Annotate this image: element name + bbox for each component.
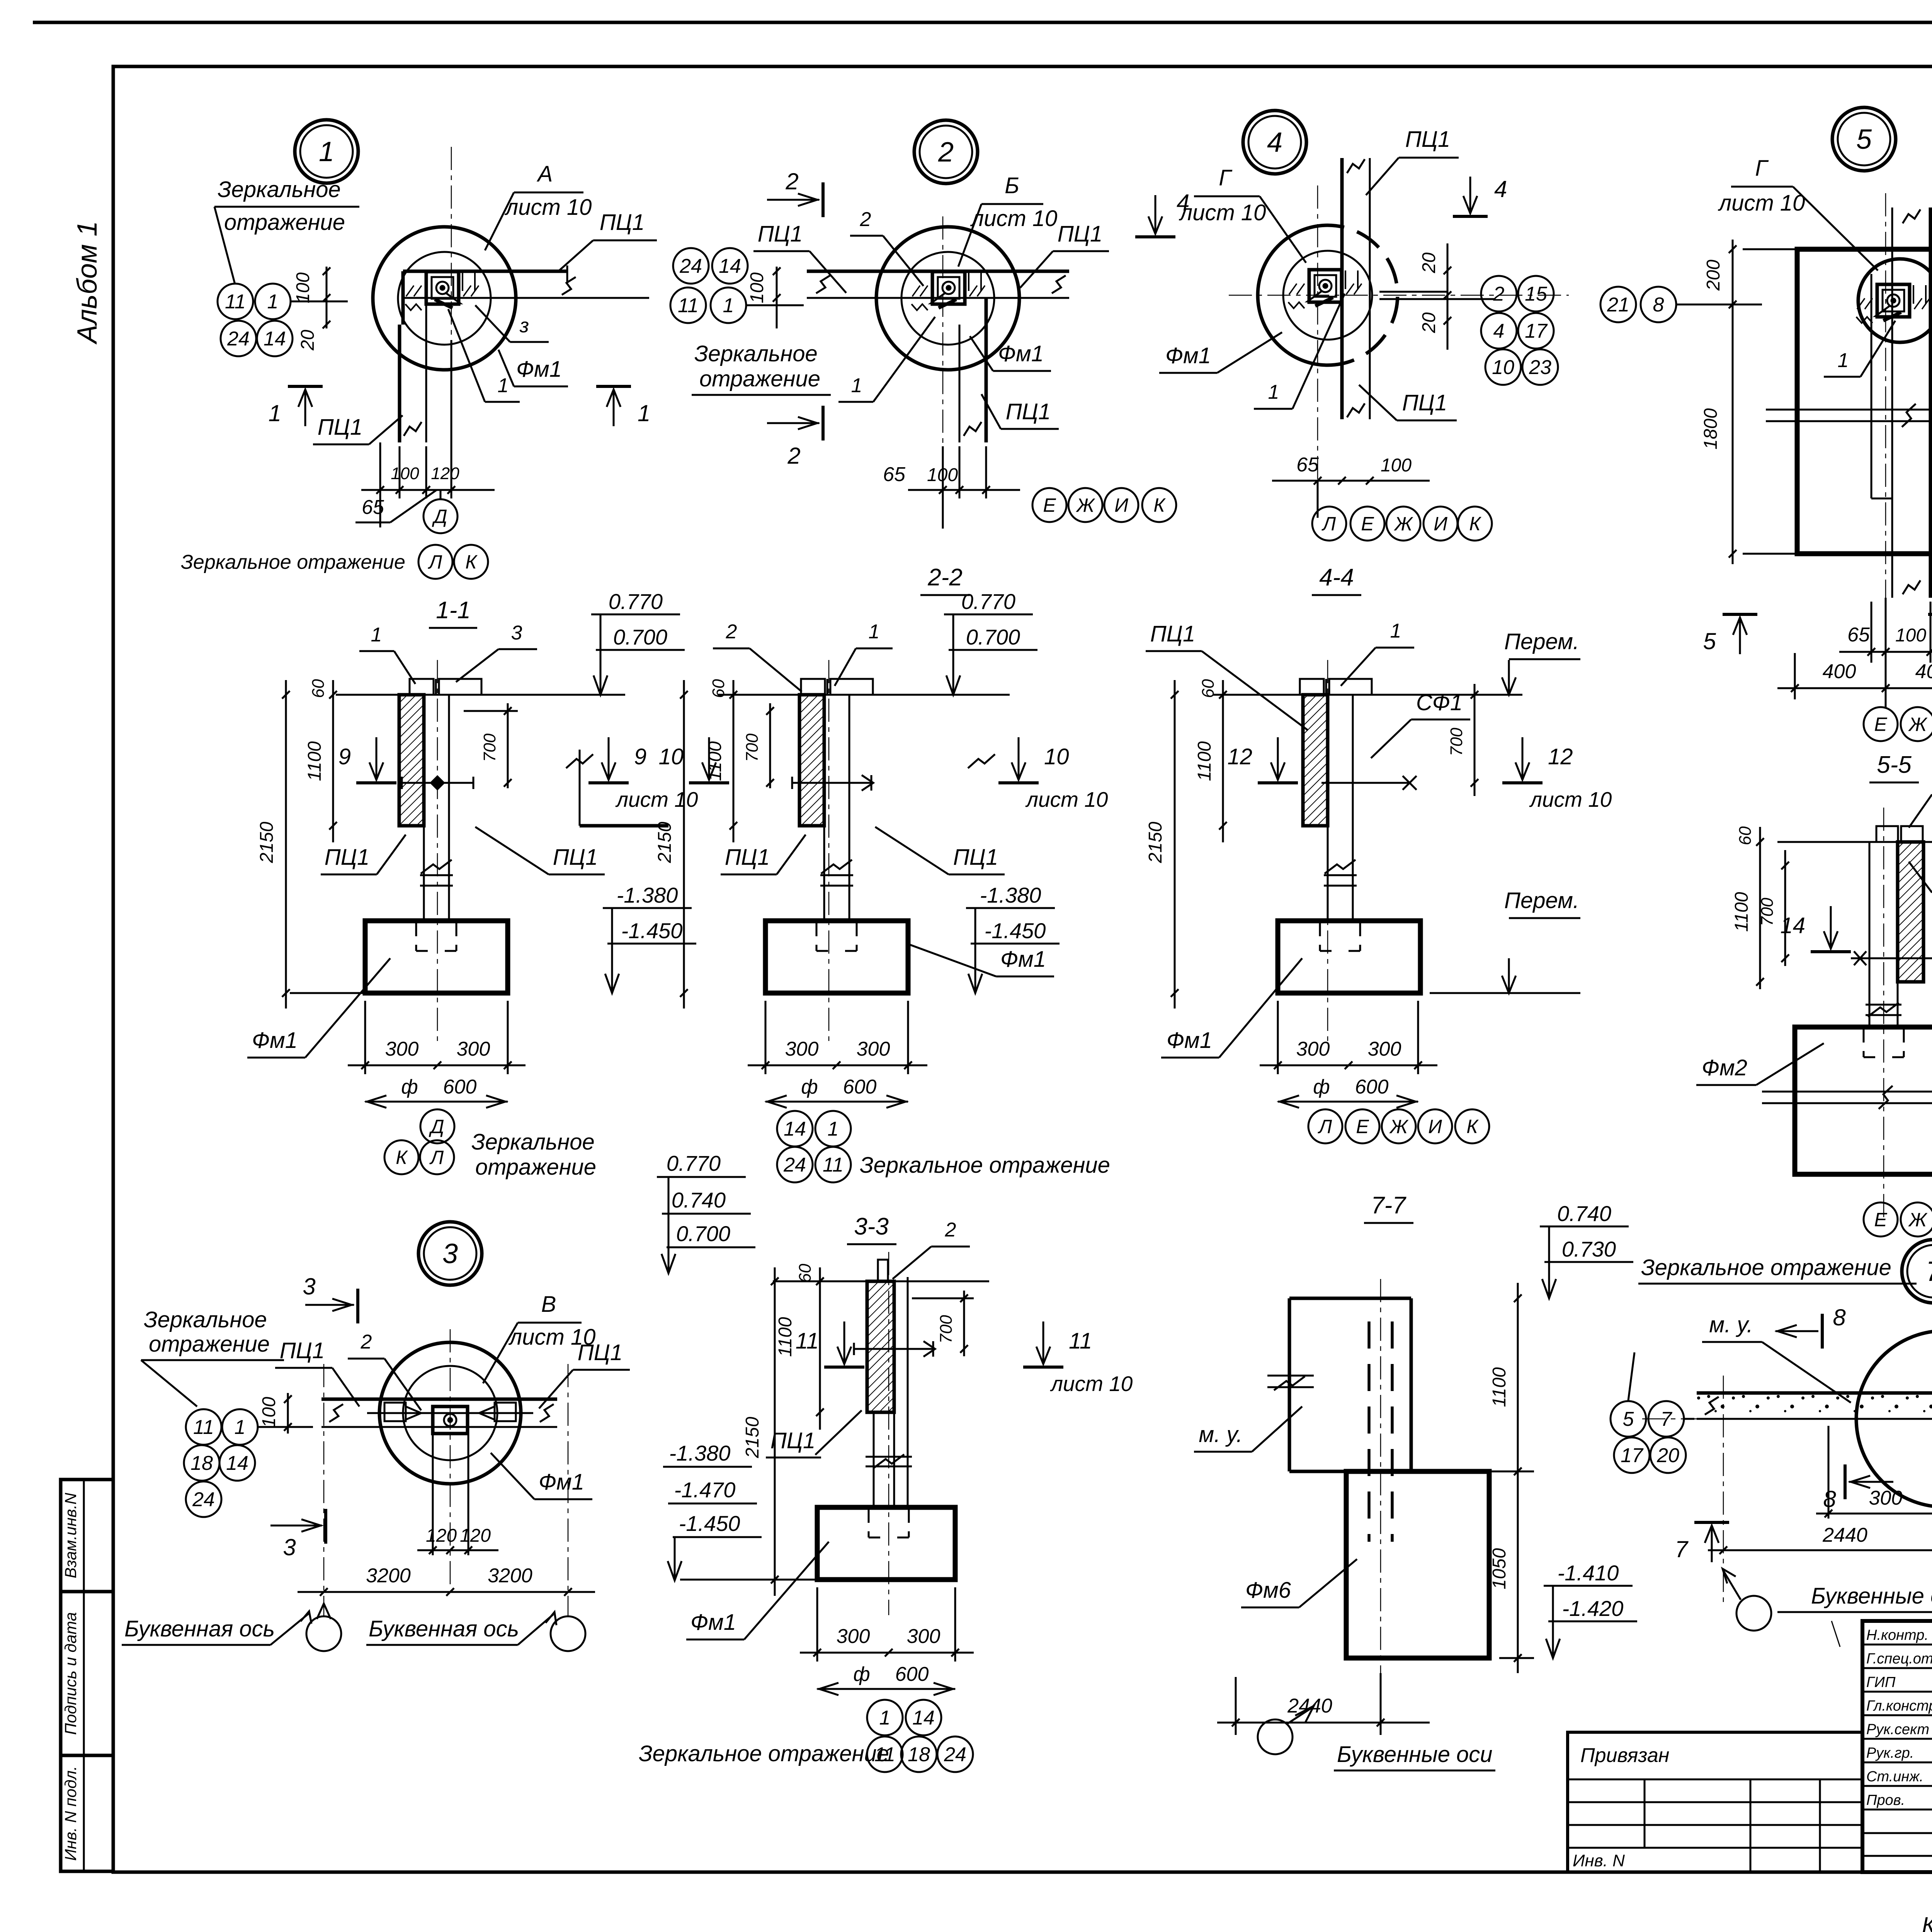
svg-text:-1.470: -1.470 [674,1478,736,1502]
svg-text:600: 600 [843,1076,877,1098]
svg-text:0.700: 0.700 [966,625,1020,649]
svg-text:ПЦ1: ПЦ1 [725,845,770,870]
svg-text:1-1: 1-1 [436,597,471,624]
section 2-2 axis circles [777,1111,813,1146]
svg-text:14: 14 [1780,913,1805,938]
svg-text:Фм1: Фм1 [516,357,562,382]
svg-text:0.740: 0.740 [1557,1201,1611,1226]
svg-text:11: 11 [1069,1328,1092,1354]
detail 5 centerline [1885,193,1886,634]
detail 5 cut marks [1723,613,1757,616]
section 7-7 dims [1517,1283,1519,1488]
svg-text:14: 14 [719,255,741,277]
detail 3 pile circles [379,1342,521,1484]
detail 4 pile circles (half dashed) [1258,225,1328,365]
svg-text:лист 10: лист 10 [1050,1372,1133,1396]
section 5-5 dims [1759,827,1761,989]
svg-text:11: 11 [823,1154,844,1176]
svg-text:ПЦ1: ПЦ1 [1402,390,1447,415]
svg-text:ПЦ1: ПЦ1 [1058,221,1102,247]
detail 7 concrete band [1697,1393,1932,1419]
detail 2 anchor [932,272,965,304]
svg-text:24: 24 [679,255,702,277]
svg-text:600: 600 [443,1076,477,1098]
section 3-3 post [893,1281,895,1507]
svg-text:лист 10: лист 10 [615,787,698,811]
svg-text:Н.контр.: Н.контр. [1866,1627,1929,1643]
svg-text:Фм1: Фм1 [1165,343,1211,368]
svg-text:120: 120 [426,1526,457,1546]
svg-text:Копировал Перелыгина: Копировал Перелыгина [1922,1913,1932,1932]
svg-text:17: 17 [1525,320,1548,342]
svg-text:14: 14 [784,1118,806,1140]
detail 4 centerline [1317,185,1318,514]
svg-text:Б: Б [1005,173,1019,198]
svg-text:ГИП: ГИП [1866,1674,1896,1690]
detail 2 wall band [807,270,1069,273]
svg-text:лист 10: лист 10 [1718,190,1805,216]
svg-text:1: 1 [851,374,862,397]
svg-text:ПЦ1: ПЦ1 [1006,399,1051,424]
svg-text:1: 1 [1268,381,1279,403]
svg-text:0.770: 0.770 [667,1151,721,1175]
svg-text:Ст.инж.: Ст.инж. [1866,1769,1923,1785]
section 7-7 foundation [1346,1471,1489,1658]
svg-text:Фм1: Фм1 [690,1610,736,1635]
svg-text:0.700: 0.700 [676,1221,730,1246]
svg-text:Г: Г [1755,156,1769,181]
section 7-7 dashed piles [1367,1321,1371,1542]
detail 4 mark circles [1481,276,1517,311]
detail 4 right dims [1447,243,1449,350]
svg-text:300: 300 [457,1038,490,1060]
svg-text:100: 100 [391,464,419,483]
detail 4 [1243,111,1306,174]
svg-text:300: 300 [1296,1038,1330,1060]
section 5-5 hatched wall right [1898,842,1923,982]
svg-text:ПЦ1: ПЦ1 [758,221,803,247]
section 3-3 bottom dims [816,1587,818,1662]
svg-text:Ж: Ж [1908,714,1928,735]
section 1-1 axis circles [420,1109,454,1143]
svg-text:4: 4 [1267,127,1282,158]
detail 1 axis Д [440,490,442,498]
svg-text:2-2: 2-2 [927,564,963,591]
svg-text:1: 1 [1390,620,1401,642]
svg-text:отражение: отражение [475,1155,596,1180]
svg-text:2: 2 [787,443,800,469]
svg-text:18: 18 [190,1452,213,1475]
svg-text:ПЦ1: ПЦ1 [600,210,645,235]
sheet outer top edge [33,21,1932,24]
svg-text:Ж: Ж [1389,1116,1409,1138]
svg-text:5: 5 [1856,124,1872,155]
svg-text:100: 100 [259,1397,279,1428]
section 4-4 tie [1321,782,1410,784]
svg-text:24: 24 [227,328,250,350]
svg-text:1: 1 [498,374,509,397]
svg-text:20: 20 [1419,312,1439,333]
detail 2 axis circles [1032,488,1066,522]
svg-text:В: В [541,1292,556,1317]
svg-text:ф: ф [853,1663,870,1685]
svg-text:2150: 2150 [742,1417,763,1458]
detail 7 centerlines [1723,1376,1724,1607]
svg-text:3200: 3200 [488,1565,532,1587]
svg-text:400: 400 [1915,660,1932,683]
svg-text:Фм1: Фм1 [1000,947,1046,972]
svg-text:Фм1: Фм1 [1167,1028,1212,1053]
svg-text:2: 2 [361,1331,372,1353]
detail 5 bottom dims [1885,598,1887,707]
detail 4 bottom dims [1317,502,1319,518]
detail 7 cut 8 marks [1821,1314,1824,1349]
section 4-4 700 dim [1474,684,1476,796]
svg-text:1050: 1050 [1489,1548,1510,1589]
detail 3 bottom dims [298,1591,595,1593]
svg-text:отражение: отражение [149,1332,270,1357]
svg-text:0.770: 0.770 [609,589,663,614]
svg-text:11: 11 [796,1328,819,1354]
svg-text:Зеркальное отражение: Зеркальное отражение [181,551,405,573]
svg-text:11: 11 [225,291,246,313]
svg-text:12: 12 [1227,744,1252,769]
svg-text:Е: Е [1356,1116,1369,1138]
svg-text:10: 10 [658,744,684,769]
svg-text:0.770: 0.770 [961,589,1015,614]
svg-text:ПЦ1: ПЦ1 [1405,127,1450,152]
svg-text:-1.380: -1.380 [980,883,1041,907]
detail 5 inner pile strip [1871,274,1872,498]
svg-text:20: 20 [298,330,318,351]
section 7-7 centerline [1380,1279,1381,1673]
svg-text:700: 700 [937,1315,956,1344]
svg-text:3: 3 [303,1274,315,1299]
svg-text:60: 60 [1736,826,1755,845]
section 7-7 2440 dim [1217,1722,1430,1724]
svg-text:Л: Л [1318,1116,1332,1138]
svg-text:ПЦ1: ПЦ1 [953,845,998,870]
svg-text:2: 2 [938,137,954,168]
svg-text:Зеркальное: Зеркальное [694,341,818,366]
section 4-4 axis circles [1308,1109,1342,1143]
svg-text:9: 9 [338,744,351,769]
svg-text:65: 65 [883,463,906,486]
detail 1 pile circles [373,227,516,370]
svg-text:14: 14 [226,1452,248,1475]
svg-text:200: 200 [1703,260,1724,291]
svg-text:100: 100 [293,272,313,303]
svg-text:Перем.: Перем. [1504,888,1579,913]
svg-text:ПЦ1: ПЦ1 [1150,621,1195,646]
svg-text:м. у.: м. у. [1199,1422,1242,1447]
svg-text:15: 15 [1525,283,1548,305]
svg-text:Подпись и дата: Подпись и дата [61,1612,80,1735]
section 3-3 700 dim [963,1291,965,1356]
svg-text:-1.450: -1.450 [679,1511,740,1536]
detail 1 cut marks [288,385,323,388]
detail 3 [418,1222,482,1285]
detail 5 axis circles [1864,707,1898,741]
svg-text:4: 4 [1493,320,1505,342]
svg-text:И: И [1114,495,1128,516]
svg-text:1: 1 [828,1118,839,1140]
svg-text:Г: Г [1219,165,1233,190]
svg-text:1: 1 [723,294,734,317]
svg-text:Буквенная ось: Буквенная ось [369,1616,519,1641]
svg-text:100: 100 [1895,625,1926,646]
svg-text:Ж: Ж [1908,1209,1928,1231]
section 3-3 top line [773,1281,989,1282]
svg-text:Фм2: Фм2 [1702,1055,1747,1080]
svg-text:1: 1 [371,624,382,646]
svg-text:Взам.инв.N: Взам.инв.N [61,1493,80,1578]
detail 4 anchor [1309,270,1342,302]
staff table [1862,1644,1932,1646]
svg-text:8: 8 [1823,1486,1836,1512]
svg-text:Гл.констр: Гл.констр [1866,1698,1932,1714]
svg-text:5: 5 [1703,628,1716,654]
svg-text:1: 1 [235,1416,246,1439]
detail 5 [1832,107,1896,171]
svg-text:700: 700 [1758,898,1777,926]
svg-text:10: 10 [1044,744,1069,769]
section 3-3 tie [854,1348,935,1350]
detail 1 anchor [426,272,459,304]
svg-text:65: 65 [1296,454,1319,476]
section 5-5 left post [1869,842,1871,1027]
svg-text:К: К [465,551,478,573]
detail 3 inner plates [384,1403,406,1421]
svg-text:10: 10 [1492,356,1514,379]
svg-text:8: 8 [1653,294,1664,316]
svg-text:Д: Д [429,1116,444,1138]
svg-text:5: 5 [1623,1408,1634,1430]
svg-text:1100: 1100 [775,1317,796,1357]
section 1-1 left dims [332,680,334,842]
svg-text:лист 10: лист 10 [1179,200,1266,225]
svg-text:Зеркальное отражение: Зеркальное отражение [1641,1255,1891,1280]
svg-text:600: 600 [895,1663,929,1685]
svg-text:3-3: 3-3 [854,1213,889,1240]
svg-text:7: 7 [1926,1256,1932,1287]
svg-text:А: А [537,162,553,187]
svg-text:Фм6: Фм6 [1245,1578,1291,1603]
svg-text:65: 65 [1847,624,1870,646]
svg-text:ф: ф [801,1076,818,1098]
svg-text:20: 20 [1656,1444,1679,1467]
svg-text:Буквенные оси: Буквенные оси [1337,1742,1493,1767]
svg-text:Буквенные оси: Буквенные оси [1811,1583,1932,1609]
svg-text:-1.450: -1.450 [621,918,683,943]
detail 2 cut marks [821,182,825,217]
detail 1 centerlines [451,147,452,495]
svg-text:5-5: 5-5 [1877,752,1912,778]
section 1-1 700 dim [507,703,509,788]
svg-text:7-7: 7-7 [1371,1192,1406,1219]
detail 3 axis circles [306,1616,341,1651]
detail 7 mark circles [1611,1401,1646,1437]
svg-text:Г.спец.отд.: Г.спец.отд. [1866,1651,1932,1667]
detail 5 mark circles [1600,287,1636,322]
svg-text:Зеркальное: Зеркальное [471,1129,595,1155]
svg-text:Инв. N: Инв. N [1573,1851,1625,1870]
svg-text:120: 120 [460,1526,491,1546]
svg-text:300: 300 [837,1625,870,1648]
svg-text:700: 700 [743,733,762,762]
svg-text:Зеркальное: Зеркальное [144,1307,267,1332]
svg-text:отражение: отражение [699,366,820,391]
svg-text:3: 3 [442,1238,458,1269]
svg-text:Рук.гр.: Рук.гр. [1866,1745,1914,1761]
svg-text:И: И [1428,1116,1442,1138]
svg-text:Д: Д [432,506,447,527]
svg-text:1: 1 [879,1707,891,1729]
detail 2 wall band vertical [959,325,961,442]
svg-text:2440: 2440 [1822,1524,1867,1546]
svg-text:Е: Е [1874,1209,1887,1231]
svg-text:Ж: Ж [1075,495,1095,516]
svg-text:1: 1 [638,400,650,426]
svg-text:11: 11 [193,1416,214,1439]
svg-text:100: 100 [1381,455,1412,476]
svg-text:Перем.: Перем. [1504,629,1579,654]
svg-text:ф: ф [401,1076,418,1098]
svg-text:0.740: 0.740 [672,1188,726,1212]
svg-text:Рук.сект: Рук.сект [1866,1721,1929,1738]
svg-text:700: 700 [1447,728,1466,756]
svg-text:Л: Л [428,551,442,573]
left stamp column table [61,1480,113,1871]
section 7-7 wall [1289,1297,1411,1300]
svg-text:60: 60 [796,1264,815,1282]
svg-text:24: 24 [944,1743,966,1766]
svg-text:-1.420: -1.420 [1562,1596,1624,1621]
section 4-4 bottom dims [1277,1001,1279,1074]
bottom left: Буквенные оси under 7-7 [1258,1719,1293,1754]
svg-text:з: з [519,315,529,337]
svg-text:лист 10: лист 10 [505,195,592,220]
svg-text:14: 14 [264,328,286,350]
svg-text:4: 4 [1177,190,1189,216]
svg-text:3: 3 [283,1534,296,1560]
detail 7 cut 7 marks [1694,1521,1729,1524]
svg-text:0.730: 0.730 [1562,1237,1616,1261]
svg-text:24: 24 [783,1154,806,1176]
detail 7 view marker [1902,1240,1932,1303]
svg-text:ПЦ1: ПЦ1 [770,1428,815,1453]
section 3-3 hatched wall [867,1281,894,1412]
svg-text:100: 100 [747,272,767,303]
section 5-5 axis circles [1864,1202,1898,1236]
section 5-5 foundation [1795,1027,1932,1174]
svg-text:8: 8 [1833,1304,1846,1330]
svg-text:300: 300 [1869,1487,1903,1509]
svg-text:1: 1 [869,621,880,643]
svg-text:300: 300 [857,1038,890,1060]
svg-text:-1.380: -1.380 [669,1441,731,1465]
svg-text:2: 2 [860,208,871,231]
svg-text:4: 4 [1494,176,1507,202]
svg-text:Е: Е [1043,495,1056,516]
svg-text:Зеркальное отражение: Зеркальное отражение [639,1741,889,1766]
svg-text:1100: 1100 [304,741,325,781]
svg-text:2150: 2150 [1145,821,1166,863]
svg-text:1: 1 [319,136,334,167]
svg-text:Л: Л [429,1147,444,1168]
detail 2 centerline [942,216,944,495]
svg-text:20: 20 [1419,252,1439,274]
detail 3 mark circles [186,1409,221,1445]
section 2-2 700 dim [769,703,771,788]
svg-text:2150: 2150 [655,821,675,863]
detail 2 pile circles [876,227,1019,370]
svg-text:700: 700 [480,733,499,762]
svg-text:ПЦ1: ПЦ1 [578,1340,622,1365]
svg-text:Ж: Ж [1393,513,1413,535]
svg-text:Е: Е [1874,714,1887,735]
section 5-5 centerline [1883,808,1884,1221]
svg-text:Зеркальное: Зеркальное [218,177,341,202]
svg-text:-1.450: -1.450 [985,918,1046,943]
detail 3 cut marks [356,1289,359,1323]
detail 4 wall vertical band [1340,158,1344,419]
detail 5 horizontal break in rect [1766,409,1932,411]
svg-text:120: 120 [431,464,459,483]
svg-text:23: 23 [1529,356,1551,379]
svg-text:Пров.: Пров. [1866,1792,1905,1808]
svg-text:600: 600 [1355,1076,1389,1098]
detail 1 bottom dims [379,442,381,527]
svg-text:Фм1: Фм1 [539,1469,584,1495]
svg-text:2: 2 [1493,283,1505,305]
svg-text:60: 60 [309,679,328,698]
svg-text:Л: Л [1321,513,1336,535]
section 2-2 tie mark [792,782,873,784]
detail 5 top circle [1858,259,1932,342]
section 3-3 sheet marks [844,1321,845,1364]
detail 5 left dims [1732,240,1734,564]
svg-text:24: 24 [192,1488,215,1511]
svg-text:21: 21 [1607,294,1629,316]
svg-text:65: 65 [362,496,384,519]
section 5-5 sheet marks [1830,906,1832,949]
svg-text:отражение: отражение [224,210,345,235]
detail 3 centerlines [323,1364,325,1617]
svg-text:лист 10: лист 10 [1529,787,1612,811]
svg-text:Альбом 1: Альбом 1 [72,221,103,345]
svg-text:7: 7 [1675,1536,1689,1562]
svg-text:Инв. N подл.: Инв. N подл. [61,1766,80,1861]
svg-text:0.700: 0.700 [613,625,667,649]
detail 5 foundation rect [1797,249,1932,554]
svg-text:300: 300 [907,1625,940,1648]
svg-text:ПЦ1: ПЦ1 [553,845,598,870]
section 1-1 sheet marks [376,737,378,780]
svg-text:300: 300 [1368,1038,1401,1060]
detail 1 mark circles [218,284,253,319]
detail 3 wall band [321,1398,557,1401]
detail 2 mark circles [673,248,709,284]
svg-text:1100: 1100 [1731,892,1752,932]
svg-text:1: 1 [269,400,281,426]
svg-text:100: 100 [927,465,958,485]
svg-text:К: К [1466,1116,1479,1138]
title block outer [1862,1621,1932,1872]
detail 2 [914,120,978,184]
section 4-4 sheet marks [1277,737,1279,780]
svg-text:400: 400 [1823,660,1856,683]
